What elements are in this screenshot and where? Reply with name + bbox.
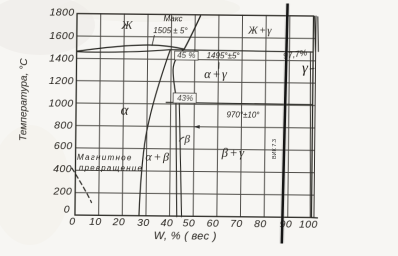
gamma solvus right <box>309 52 312 218</box>
svg-text:20: 20 <box>112 216 126 228</box>
beta band right <box>178 103 183 217</box>
svg-text:60: 60 <box>207 217 220 229</box>
svg-text:1505 ± 5°: 1505 ± 5° <box>153 26 188 35</box>
gamma liquidus doubles above peritectic <box>314 16 316 51</box>
svg-text:0: 0 <box>64 204 70 216</box>
svg-text:1200: 1200 <box>49 75 74 87</box>
svg-text:Макс: Макс <box>164 14 183 23</box>
bottom axis overhang <box>311 217 317 219</box>
svg-text:β: β <box>183 133 190 145</box>
svg-text:α: α <box>121 103 130 119</box>
svg-text:превращение: превращение <box>79 163 143 173</box>
svg-text:β+γ: β+γ <box>221 146 246 160</box>
svg-text:200: 200 <box>52 185 72 197</box>
solidus <box>77 49 170 53</box>
grid horizontal lines <box>75 36 316 195</box>
grid vertical lines <box>99 14 290 217</box>
svg-text:800: 800 <box>54 120 73 132</box>
svg-text:ВИК 7.3: ВИК 7.3 <box>272 139 278 159</box>
svg-text:10: 10 <box>89 216 102 228</box>
svg-text:70: 70 <box>230 218 243 230</box>
svg-text:α+γ: α+γ <box>204 67 228 81</box>
gamma dash <box>310 67 314 70</box>
y axis labels <box>47 7 74 216</box>
liquidus <box>77 44 184 52</box>
leader tick 1495 <box>218 63 220 69</box>
970 peritectoid line <box>166 102 312 104</box>
svg-text:100: 100 <box>299 219 318 231</box>
43% box <box>173 93 196 103</box>
magnetic transformation dashed <box>72 168 92 202</box>
svg-text:30: 30 <box>137 217 150 229</box>
svg-text:α+β: α+β <box>145 149 170 163</box>
beta band left <box>175 103 178 217</box>
svg-text:970°±10°: 970°±10° <box>226 110 260 119</box>
svg-text:43%: 43% <box>177 94 193 103</box>
svg-text:1600: 1600 <box>49 30 74 42</box>
beta leader curl <box>179 137 184 141</box>
svg-text:1000: 1000 <box>49 97 74 109</box>
gamma liquidus steep <box>184 16 200 50</box>
svg-text:W, % ( вес ): W, % ( вес ) <box>154 230 217 243</box>
alpha solvus <box>139 50 170 216</box>
svg-text:0: 0 <box>69 216 75 228</box>
svg-text:Магнитное: Магнитное <box>77 153 133 163</box>
leader to 1505 max <box>152 35 154 45</box>
svg-text:1495°±5°: 1495°±5° <box>207 51 241 60</box>
arrow on 800 gridline <box>194 125 200 129</box>
svg-text:1400: 1400 <box>49 53 74 65</box>
svg-text:Температура, °С: Температура, °С <box>18 58 30 142</box>
43-45 boundary <box>173 49 184 103</box>
doubled right edge <box>314 16 316 217</box>
svg-text:45 %: 45 % <box>177 51 195 60</box>
x axis labels <box>69 216 318 231</box>
svg-text:600: 600 <box>54 140 73 152</box>
svg-text:1800: 1800 <box>50 7 75 19</box>
svg-text:40: 40 <box>161 217 174 229</box>
svg-text:80: 80 <box>254 218 267 230</box>
svg-text:Ж: Ж <box>120 18 133 32</box>
peritectic line 1495 <box>170 50 313 52</box>
book spine line <box>282 4 288 244</box>
svg-text:50: 50 <box>183 217 196 229</box>
svg-text:400: 400 <box>53 163 72 175</box>
svg-text:Ж+γ: Ж+γ <box>247 26 273 37</box>
45% box <box>175 51 199 60</box>
